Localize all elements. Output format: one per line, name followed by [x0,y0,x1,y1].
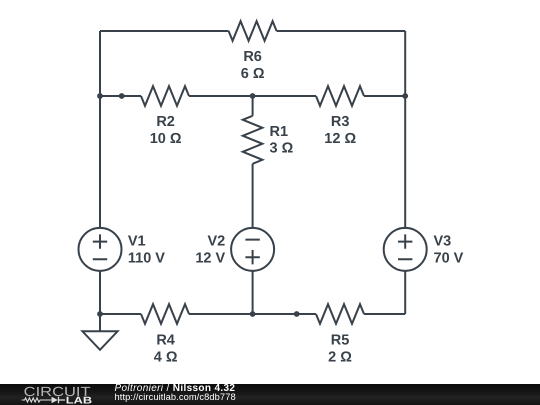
svg-text:V1: V1 [128,233,146,249]
svg-text:12 Ω: 12 Ω [324,131,356,147]
svg-text:V2: V2 [207,233,225,249]
label V2 12V [195,233,225,266]
footer bar [0,384,540,405]
wire row2 middle segment [189,95,316,97]
voltage source V2 [231,228,274,271]
CircuitLab logo [0,382,110,405]
voltage source V1 [79,228,122,271]
svg-text:R1: R1 [270,124,289,140]
svg-text:R4: R4 [156,332,175,348]
label R6 6Ω [241,49,265,82]
resistor R1 [243,116,263,164]
label R1 3Ω [270,124,294,157]
wire row2 left lead [100,95,141,97]
voltage source V3 [384,228,427,271]
footer text [114,382,116,384]
svg-text:110 V: 110 V [128,251,165,267]
wire V2 bottom [252,271,254,314]
label R5 2Ω [328,332,352,365]
svg-text:70 V: 70 V [434,251,464,267]
svg-text:10 Ω: 10 Ω [150,131,182,147]
svg-text:3 Ω: 3 Ω [270,140,294,156]
wire R1 bottom to V2 [252,164,254,228]
wire row2 right segment [364,95,405,97]
resistor R4 [141,304,189,324]
wire top horizontal right segment [277,30,406,32]
wire V3 top [404,96,406,228]
node dot bottom left [97,311,103,317]
node dot bottom wire joint [294,311,300,317]
wire bottom row left lead [100,313,141,315]
wire V3 bottom [404,271,406,314]
node dot row2 left corner [97,93,103,99]
wire bottom middle segment [189,313,316,315]
svg-text:6 Ω: 6 Ω [241,66,265,82]
wire top horizontal left segment [100,30,229,32]
resistor R6 [229,21,277,41]
wire top-left vertical (100,31)-(100,96) [99,31,101,96]
svg-text:LAB: LAB [66,396,92,405]
label V1 110V [128,233,165,266]
svg-text:V3: V3 [434,233,452,249]
logo diode [52,397,58,403]
resistor R2 [141,86,189,106]
wire bottom right segment [364,313,405,315]
wire V1 bottom [99,271,101,331]
node dot bottom V2 [250,311,256,317]
label R4 4Ω [154,332,178,365]
resistor R5 [316,304,364,324]
logo resistor [22,398,52,402]
svg-text:R5: R5 [331,332,350,348]
node dot row2 right [402,93,408,99]
node dot row2 wire joint [119,93,125,99]
wire R1 top lead [252,96,254,116]
svg-text:R2: R2 [156,114,175,130]
svg-text:R3: R3 [331,114,350,130]
ground [82,331,117,350]
svg-text:12 V: 12 V [195,251,225,267]
node dot row2 R1 junction [250,93,256,99]
svg-text:4 Ω: 4 Ω [154,350,178,366]
label R2 10Ω [150,114,182,147]
wire V1 top [99,96,101,228]
resistor R3 [316,86,364,106]
label R3 12Ω [324,114,356,147]
label V3 70V [434,233,464,266]
wire top-right vertical (405,31)-(405,96) [404,31,406,96]
svg-text:2 Ω: 2 Ω [328,350,352,366]
svg-text:R6: R6 [243,49,262,65]
